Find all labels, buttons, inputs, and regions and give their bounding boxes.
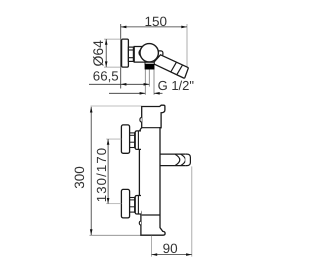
wire: thread right extension line: [153, 70, 155, 95]
spout end cap arc: [185, 154, 190, 166]
handle ring line 2: [177, 65, 183, 75]
nut flat line top: [128, 49, 133, 51]
dimension 150 line: [121, 26, 187, 28]
outlet collar: [145, 62, 154, 64]
knob2 (flow handle): [121, 189, 129, 218]
knob1 (temperature handle): [121, 125, 129, 153]
wall flange (top view): [122, 39, 129, 67]
top cap joint line: [142, 127, 161, 129]
arrow 150 right: [181, 26, 187, 29]
knob2 stem ridge 1: [129, 199, 134, 201]
arrow G left (points right): [140, 92, 146, 95]
arrow G right (points left): [154, 92, 160, 95]
spout ring arc 2: [181, 154, 186, 166]
arrow 300 bottom: [90, 229, 93, 235]
handle ring line 1: [171, 62, 177, 72]
svg-text:150: 150: [145, 14, 168, 29]
knob1 stem band: [134, 132, 136, 148]
dimension 130/170 line: [107, 139, 109, 204]
wire: thread left extension line: [144, 70, 146, 95]
svg-text:130/170: 130/170: [94, 147, 109, 202]
svg-text:300: 300: [72, 166, 87, 189]
spout tube: [160, 154, 185, 166]
knob2 boss ring: [137, 196, 139, 214]
wire: 300 bottom extension line: [90, 234, 142, 236]
wire: wall extension line (top view): [120, 24, 122, 89]
knob1 stem ridge 1: [129, 134, 134, 136]
arrow 90 left: [152, 253, 158, 256]
knob2 stem: [129, 198, 134, 213]
arrow Ø64 bottom: [105, 61, 108, 67]
arrow 130/170 bottom: [107, 198, 110, 204]
mounting nut: [128, 47, 133, 61]
wire: outlet axis extension line: [148, 70, 150, 87]
knob2 stem ridge 2: [129, 206, 134, 208]
knob1 stem: [129, 133, 134, 148]
socket box: [134, 47, 146, 63]
spout ring arc 1: [175, 154, 180, 166]
wire: Ø64 top extension line: [104, 38, 121, 40]
wire: Ø64 bottom extension line: [104, 66, 121, 68]
dimension G 1/2 leader left segment: [109, 92, 145, 94]
arrow 90 right: [186, 253, 192, 256]
wire: 300 top extension line: [91, 105, 142, 107]
wire: 90 right extension line: [191, 166, 193, 256]
knob1 boss: [135, 131, 141, 150]
knob2 stem band: [134, 197, 136, 213]
arrow 300 top: [90, 107, 93, 113]
knob1 boss ring: [137, 131, 139, 149]
wire: dimension 150 right extension line: [186, 24, 188, 67]
cap screw bump top: [140, 117, 142, 122]
bottom cap joint line: [142, 214, 160, 216]
svg-text:90: 90: [163, 241, 178, 256]
cap screw bump bottom: [139, 221, 141, 225]
dimension G 1/2 leader right segment: [154, 92, 163, 94]
outlet thread G 1/2 (black): [145, 64, 154, 69]
arrow 130/170 top: [107, 139, 110, 145]
nut flat line bottom: [128, 57, 133, 59]
column body silhouette (front view): [139, 105, 165, 235]
handle lever: [153, 55, 188, 78]
arrow 150 left: [121, 26, 127, 29]
dimension 66,5 line: [89, 83, 149, 85]
svg-text:G 1/2": G 1/2": [158, 78, 195, 93]
svg-text:66,5: 66,5: [93, 68, 119, 83]
svg-text:Ø64: Ø64: [90, 40, 106, 67]
knob1 stem ridge 2: [129, 141, 134, 143]
wire: 130/170 top extension line: [106, 138, 121, 140]
arrow 66,5 left: [121, 83, 127, 86]
ball right nub: [157, 51, 163, 56]
wire: 90 left extension line: [151, 236, 153, 257]
knob2 boss: [135, 196, 141, 215]
dimension Ø64 line: [105, 39, 107, 67]
wire: 130/170 bottom extension line: [106, 203, 121, 205]
dimension 90 line: [152, 254, 192, 256]
ball left nub: [139, 49, 147, 57]
arrow 66,5 right: [144, 83, 150, 86]
mixer ball body: [140, 44, 158, 62]
dimension 300 line: [90, 107, 92, 235]
arrow Ø64 top: [105, 39, 108, 45]
